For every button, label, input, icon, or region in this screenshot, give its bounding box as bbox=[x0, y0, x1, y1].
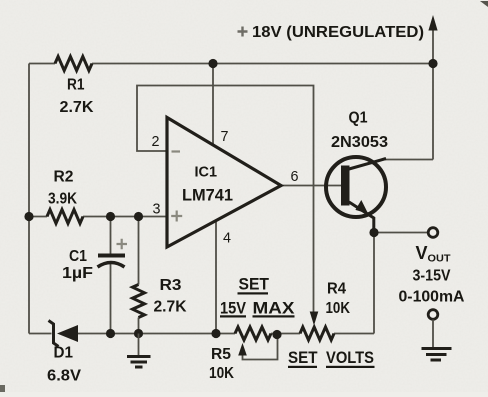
label 15V bbox=[220, 300, 246, 318]
label D1 value 6.8V bbox=[47, 368, 82, 385]
svg-text:10K: 10K bbox=[326, 300, 351, 317]
svg-text:4: 4 bbox=[223, 231, 231, 247]
svg-text:6: 6 bbox=[291, 169, 299, 185]
svg-text:2N3053: 2N3053 bbox=[331, 134, 388, 151]
transistor Q1 bbox=[326, 157, 386, 232]
svg-text:SET: SET bbox=[239, 276, 270, 294]
label R5 bbox=[211, 346, 231, 363]
pin 4 label bbox=[223, 231, 231, 247]
label MAX bbox=[253, 300, 295, 318]
node +18V input bbox=[428, 59, 437, 68]
svg-text:2: 2 bbox=[152, 134, 160, 150]
label LM741 bbox=[182, 186, 233, 205]
arrow: +18V up arrow bbox=[428, 15, 437, 31]
svg-text:C1: C1 bbox=[69, 248, 87, 265]
svg-text:IC1: IC1 bbox=[195, 165, 218, 181]
svg-text:SET: SET bbox=[288, 349, 318, 367]
label D1 bbox=[54, 345, 74, 362]
scan mark bottom-left corner bbox=[0, 385, 5, 392]
svg-text:10K: 10K bbox=[209, 365, 235, 382]
node pin7 tap bbox=[208, 59, 217, 68]
net label +18V unregulated bbox=[238, 24, 425, 41]
label C1 bbox=[69, 248, 87, 265]
node C1 top bbox=[106, 212, 115, 221]
label R1 value 2.7K bbox=[60, 99, 95, 116]
svg-text:LM741: LM741 bbox=[182, 186, 233, 205]
node left rail R2 bbox=[24, 212, 33, 221]
resistor R1 bbox=[55, 57, 92, 71]
pin 7 label bbox=[221, 129, 229, 145]
pin 3 plus mark bbox=[171, 211, 182, 222]
svg-text:0-100mA: 0-100mA bbox=[399, 289, 465, 306]
wire: +18V input drop bbox=[432, 26, 434, 64]
output terminal Vout+ bbox=[428, 228, 438, 238]
zener diode D1 bbox=[49, 321, 79, 347]
label 3-15V bbox=[413, 268, 452, 285]
label SET (15V MAX) bbox=[238, 276, 270, 295]
wire: pin 7 supply drop bbox=[212, 64, 214, 146]
potentiometer R5 bbox=[235, 327, 271, 356]
pin 2 minus mark bbox=[172, 150, 181, 152]
svg-text:D1: D1 bbox=[54, 345, 74, 362]
output terminal Vout- bbox=[428, 310, 438, 320]
pin 3 label bbox=[153, 202, 161, 218]
pin 6 label bbox=[291, 169, 299, 185]
wire: left vertical rail bbox=[28, 64, 30, 334]
wire: feedback loop pin2 to R4 wiper bbox=[137, 86, 314, 312]
ground below output terminal bbox=[422, 320, 452, 361]
svg-text:7: 7 bbox=[221, 129, 229, 145]
potentiometer R4 bbox=[300, 312, 334, 341]
label C1 polarity plus bbox=[117, 239, 128, 249]
svg-text:18V (UNREGULATED): 18V (UNREGULATED) bbox=[252, 24, 424, 41]
node R3 top bbox=[134, 212, 143, 221]
label R3 value 2.7K bbox=[154, 299, 188, 316]
op-amp IC1 triangle bbox=[167, 118, 281, 248]
node pin4 ground bbox=[211, 329, 220, 338]
label IC1 bbox=[195, 165, 218, 181]
node R3 bottom ground bbox=[134, 329, 143, 338]
svg-text:1µF: 1µF bbox=[62, 265, 93, 282]
svg-text:OUT: OUT bbox=[428, 253, 452, 265]
label 0-100mA bbox=[399, 289, 465, 306]
resistor R2 bbox=[47, 210, 83, 224]
capacitor C1 bbox=[98, 256, 126, 268]
pin 2 label bbox=[152, 134, 160, 150]
label SET (VOLTS) bbox=[288, 349, 318, 368]
svg-text:6.8V: 6.8V bbox=[47, 368, 82, 385]
label R1 bbox=[67, 77, 85, 94]
label R4 bbox=[327, 281, 346, 298]
wire: output node riser bbox=[373, 233, 375, 334]
label VOLTS bbox=[326, 349, 375, 368]
label R3 bbox=[160, 277, 182, 294]
node C1 bottom bbox=[106, 329, 115, 338]
svg-text:VOLTS: VOLTS bbox=[326, 349, 374, 367]
label Vout bbox=[416, 243, 452, 265]
label Q1 bbox=[349, 110, 368, 127]
wire: R3 branch bbox=[138, 217, 140, 334]
scan mark top-right corner bbox=[480, 1, 488, 7]
svg-text:MAX: MAX bbox=[253, 300, 295, 318]
svg-text:R2: R2 bbox=[54, 169, 74, 186]
svg-text:V: V bbox=[416, 243, 428, 263]
label R5 value 10K bbox=[209, 365, 235, 382]
svg-text:R4: R4 bbox=[327, 281, 346, 298]
wire: bottom ground rail bbox=[29, 333, 374, 335]
svg-text:2.7K: 2.7K bbox=[60, 99, 95, 116]
svg-text:R1: R1 bbox=[67, 77, 85, 94]
svg-text:15V: 15V bbox=[220, 300, 246, 318]
label C1 value 1uF bbox=[62, 265, 93, 282]
label R2 value 3.9K bbox=[48, 191, 78, 208]
wire: pin 3 input wire with R2 taps bbox=[29, 216, 167, 218]
wire: pin 6 output to base bbox=[281, 185, 342, 187]
svg-text:2.7K: 2.7K bbox=[154, 299, 188, 316]
svg-text:3.9K: 3.9K bbox=[48, 191, 78, 208]
svg-text:R3: R3 bbox=[160, 277, 182, 294]
wire: collector riser and horizontal bbox=[385, 64, 433, 160]
svg-text:3: 3 bbox=[153, 202, 161, 218]
svg-text:3-15V: 3-15V bbox=[413, 268, 452, 285]
label R2 bbox=[54, 169, 74, 186]
node emitter output bbox=[369, 228, 378, 237]
label Q1 type 2N3053 bbox=[331, 134, 388, 151]
node R5 wiper junction bbox=[272, 330, 281, 339]
ground below R3 bbox=[127, 334, 151, 368]
wire: R5 wiper link bbox=[243, 336, 278, 360]
wire: +18V top rail bbox=[29, 63, 433, 65]
svg-text:R5: R5 bbox=[211, 346, 231, 363]
wire: pin 4 ground drop bbox=[215, 221, 217, 334]
svg-text:Q1: Q1 bbox=[349, 110, 368, 127]
resistor R3 bbox=[133, 285, 145, 318]
wire: emitter to output terminal bbox=[374, 232, 429, 234]
wire: C1 branch bbox=[110, 217, 112, 334]
label R4 value 10K bbox=[326, 300, 351, 317]
